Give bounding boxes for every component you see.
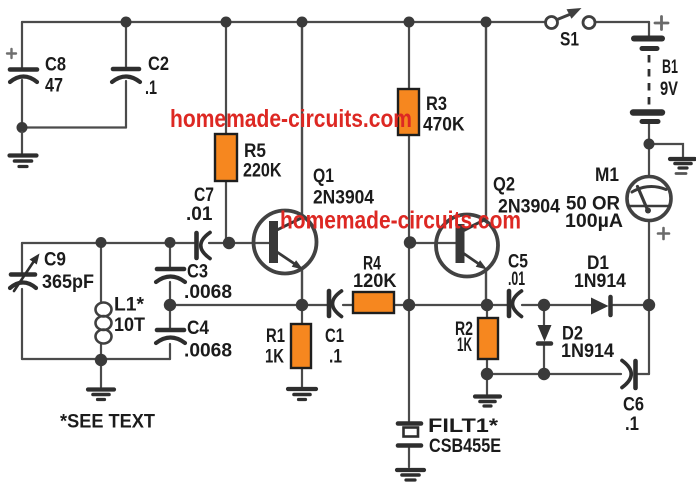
wire right column down	[648, 305, 650, 374]
wire R3 bottom column	[408, 135, 410, 305]
svg-text:homemade-circuits.com: homemade-circuits.com	[280, 207, 521, 235]
diode D1	[591, 297, 611, 315]
wire L1 bottom stem	[100, 344, 102, 359]
svg-text:C1: C1	[325, 326, 344, 347]
svg-text:C7: C7	[194, 185, 214, 206]
node D1 / meter column	[643, 299, 655, 311]
svg-text:.1: .1	[329, 347, 342, 368]
battery B1	[633, 17, 668, 122]
wire battery ground branch	[649, 144, 683, 157]
svg-text:L1*: L1*	[114, 295, 145, 316]
wire top rail left	[22, 21, 546, 23]
ground under L1	[88, 390, 114, 400]
svg-text:Q1: Q1	[313, 166, 334, 187]
node Q1 collector top	[297, 17, 308, 28]
wire Q1 collector	[277, 22, 302, 230]
node R5 top	[221, 17, 232, 28]
transistor Q1	[254, 211, 317, 274]
node R3 / Q2 base	[404, 236, 416, 248]
wire R5 bottom stem	[225, 181, 227, 243]
wire bottom right row to C6	[487, 373, 621, 375]
svg-text:365pF: 365pF	[42, 272, 94, 293]
svg-text:*SEE TEXT: *SEE TEXT	[60, 412, 155, 433]
svg-text:C4: C4	[187, 318, 209, 339]
meter M1	[627, 174, 686, 240]
wire FILT1 column	[408, 305, 410, 421]
svg-text:220K: 220K	[243, 161, 282, 182]
svg-text:47: 47	[45, 76, 63, 97]
capacitor C2	[112, 69, 140, 82]
wire base row left (tank top)	[22, 242, 194, 244]
node C3 top	[165, 237, 176, 248]
resistor R2	[478, 318, 498, 359]
wire meter to D1 row	[648, 221, 650, 305]
wire top rail right	[594, 21, 649, 23]
svg-text:100µA: 100µA	[565, 211, 623, 232]
wire C4 bottom stem	[169, 344, 171, 359]
resistor R3	[398, 89, 419, 135]
wire Q2 emitter stem	[485, 270, 487, 305]
wire C9 top stem	[21, 243, 23, 272]
svg-text:M1: M1	[595, 165, 619, 186]
svg-text:R3: R3	[426, 94, 447, 115]
switch S1	[546, 8, 596, 29]
wire R5 top stem	[225, 22, 227, 134]
svg-text:1K: 1K	[457, 335, 472, 356]
ground under FILT1	[397, 470, 424, 480]
wire tank bottom	[22, 358, 170, 360]
wire D1 to meter column	[613, 304, 649, 306]
wire C8 bottom stem	[21, 80, 23, 128]
svg-text:homemade-circuits.com: homemade-circuits.com	[170, 105, 412, 133]
capacitor C3	[156, 269, 185, 282]
svg-text:2N3904: 2N3904	[313, 188, 374, 209]
wire R2 top stem	[486, 305, 488, 318]
svg-text:C9: C9	[44, 250, 66, 271]
svg-text:10T: 10T	[114, 315, 145, 336]
svg-text:1N914: 1N914	[561, 341, 614, 362]
wire R1 top stem	[301, 305, 303, 324]
svg-text:120K: 120K	[353, 271, 397, 292]
wire battery to meter	[648, 124, 650, 177]
wire R3 top stem	[408, 22, 410, 89]
wire R2 ground stem	[486, 374, 488, 394]
capacitor C6	[622, 361, 636, 389]
transistor Q2	[436, 215, 498, 277]
wire C4 top stem	[169, 305, 171, 328]
wire R2 bottom stem	[486, 359, 488, 374]
resistor R1	[291, 324, 311, 368]
ground under R1	[288, 389, 316, 400]
resonator FILT1	[398, 424, 421, 446]
ground under C8	[10, 132, 37, 167]
wire FILT1 ground stem	[408, 448, 410, 467]
capacitor C8	[7, 49, 37, 82]
node L1 bottom	[95, 354, 107, 366]
node C2 top	[121, 17, 132, 28]
svg-text:1K: 1K	[265, 347, 284, 368]
svg-text:C6: C6	[623, 395, 644, 416]
svg-text:CSB455E: CSB455E	[429, 436, 501, 457]
wire L1 top stem	[100, 243, 102, 303]
wire battery top stem	[648, 22, 650, 37]
wire R1 ground stem	[301, 368, 303, 387]
svg-text:C8: C8	[45, 55, 66, 76]
inductor L1	[96, 303, 112, 344]
node L1 top	[96, 237, 107, 248]
node C3-C4 mid	[164, 299, 176, 311]
svg-text:R5: R5	[244, 141, 266, 162]
wire Q1 emitter stem	[301, 269, 303, 305]
wire C8-C2 bottom	[22, 126, 126, 128]
wire C3 top stem	[169, 243, 171, 267]
svg-text:Q2: Q2	[493, 175, 515, 196]
wire C5 to D1	[522, 304, 591, 306]
svg-text:.1: .1	[625, 414, 639, 435]
wire C6 to right column	[638, 373, 649, 375]
resistor R4	[353, 292, 394, 313]
node Q2 emitter / R2	[481, 299, 493, 311]
svg-text:2N3904: 2N3904	[498, 197, 560, 218]
ground right of battery	[670, 159, 695, 168]
svg-text:.0068: .0068	[184, 282, 232, 303]
svg-text:.0068: .0068	[184, 341, 232, 362]
node battery minus	[644, 139, 655, 150]
svg-text:.01: .01	[186, 204, 213, 225]
svg-text:FILT1*: FILT1*	[428, 416, 499, 437]
capacitor C1	[329, 291, 342, 317]
svg-text:B1: B1	[662, 57, 678, 78]
wire C3 bottom stem	[169, 282, 171, 305]
svg-text:.1: .1	[145, 78, 157, 99]
diode D2	[538, 325, 552, 344]
svg-text:S1: S1	[560, 30, 579, 51]
capacitor C9 variable	[10, 254, 40, 292]
node C5 / D2 top	[538, 299, 550, 311]
wire Q2 collector	[463, 22, 486, 230]
wire Q2 base	[409, 242, 456, 244]
svg-text:C3: C3	[187, 262, 208, 283]
ground under R2	[475, 397, 500, 407]
node C8 ground	[17, 122, 28, 133]
wire C1 to R4	[343, 304, 353, 306]
wire C7 to Q1 base	[209, 242, 269, 244]
wire mid row to C1	[170, 304, 328, 306]
svg-text:C2: C2	[148, 54, 169, 75]
wire C2 bottom stem	[125, 81, 127, 128]
wire D2 top stem	[543, 305, 545, 325]
capacitor C5	[509, 291, 522, 317]
wire R4 to C5	[394, 304, 507, 306]
wire C8 top stem	[21, 22, 23, 68]
node R3 top	[404, 17, 415, 28]
wire L1 ground stem	[100, 359, 102, 387]
node R4 / R3 column	[403, 299, 415, 311]
capacitor C7	[197, 233, 211, 259]
wire C2 top stem	[125, 22, 127, 67]
svg-text:1N914: 1N914	[574, 271, 626, 292]
node Q1 emitter / R1	[296, 299, 308, 311]
svg-text:470K: 470K	[423, 115, 465, 136]
svg-text:9V: 9V	[660, 79, 678, 100]
wire C9 bottom stem	[21, 289, 23, 359]
node D2 bottom	[538, 368, 550, 380]
svg-text:R1: R1	[266, 326, 285, 347]
wire D2 bottom stem	[543, 345, 545, 374]
capacitor C4	[156, 330, 185, 343]
resistor R5	[215, 134, 237, 181]
node Q2 collector top	[481, 17, 492, 28]
node R2 bottom	[481, 368, 493, 380]
svg-text:.01: .01	[508, 269, 525, 290]
node R5 bottom / Q1 base	[223, 237, 235, 249]
